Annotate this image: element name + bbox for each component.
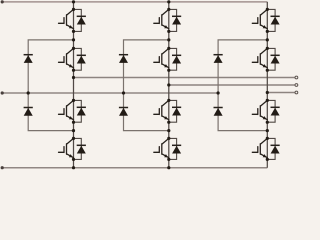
free-wheel diode D34 (271, 145, 280, 153)
wire free-wheel diode branch Q34 (267, 138, 275, 159)
node leg2 upper clamp junction (167, 38, 170, 41)
terminal neutral N (1, 91, 4, 94)
IGBT Q14 (59, 138, 74, 157)
IGBT Q33 (252, 100, 267, 119)
wire free-wheel diode branch Q32 (267, 48, 275, 70)
terminal phase C (295, 91, 298, 94)
node Q34 collector (266, 137, 269, 140)
wire free-wheel diode branch Q23 (169, 100, 177, 122)
wire free-wheel diode branch Q14 (74, 138, 82, 159)
node leg1 / DC+ rail (72, 0, 75, 3)
free-wheel diode D13 (77, 107, 86, 115)
IGBT Q12 (59, 48, 74, 67)
terminal phase A (295, 76, 298, 79)
node Q11 collector (72, 8, 75, 11)
wire neutral-point rail (2, 92, 218, 94)
wire free-wheel diode branch Q31 (267, 9, 275, 31)
clamp diode Dc11 (24, 55, 33, 63)
node Q32 collector (266, 47, 269, 50)
IGBT Q13 (59, 100, 74, 119)
node Q12 emitter (72, 69, 75, 72)
node Q23 emitter (167, 121, 170, 124)
wire clamp column leg A (28, 40, 73, 131)
IGBT Q21 (154, 9, 169, 28)
node Q22 collector (167, 47, 170, 50)
wire clamp column leg B (124, 40, 169, 131)
wire clamp column leg C (218, 40, 267, 131)
node Q34 emitter (266, 158, 269, 161)
node Q33 emitter (266, 121, 269, 124)
node phase C tap (266, 91, 269, 94)
free-wheel diode D22 (172, 55, 181, 63)
IGBT Q32 (252, 48, 267, 67)
node Q33 collector (266, 99, 269, 102)
IGBT Q34 (252, 138, 267, 157)
node Q12 collector (72, 47, 75, 50)
free-wheel diode D23 (172, 107, 181, 115)
wire negative DC rail (2, 167, 267, 169)
wire free-wheel diode branch Q11 (74, 9, 82, 31)
node Q13 collector (72, 99, 75, 102)
clamp diode Dc12 (24, 108, 33, 116)
node Q13 emitter (72, 121, 75, 124)
terminal DC+ (1, 0, 4, 3)
wire free-wheel diode branch Q12 (74, 48, 82, 70)
wire phase B output (169, 84, 295, 86)
node leg2 / DC+ rail (167, 0, 170, 3)
wire free-wheel diode branch Q24 (169, 138, 177, 159)
node leg2 lower clamp junction (167, 129, 170, 132)
terminal phase B (295, 84, 298, 87)
node leg1 lower clamp junction (72, 129, 75, 132)
wire phase leg B vertical (168, 2, 170, 168)
node Q24 emitter (167, 158, 170, 161)
IGBT Q31 (252, 9, 267, 28)
wire free-wheel diode branch Q22 (169, 48, 177, 70)
free-wheel diode D11 (77, 16, 86, 24)
node clamp column 3 / neutral rail (217, 91, 220, 94)
terminal DC- (1, 166, 4, 169)
node Q14 collector (72, 137, 75, 140)
free-wheel diode D32 (271, 55, 280, 63)
node Q24 collector (167, 137, 170, 140)
node Q31 emitter (266, 30, 269, 33)
clamp diode Dc21 (119, 55, 128, 63)
wire free-wheel diode branch Q21 (169, 9, 177, 31)
node Q22 emitter (167, 69, 170, 72)
clamp diode Dc31 (214, 55, 223, 63)
free-wheel diode D24 (172, 145, 181, 153)
node clamp column 1 / neutral rail (27, 91, 30, 94)
node leg1 upper clamp junction (72, 38, 75, 41)
node Q14 emitter (72, 158, 75, 161)
node clamp column 2 / neutral rail (122, 91, 125, 94)
IGBT Q11 (59, 9, 74, 28)
node leg3 lower clamp junction (266, 129, 269, 132)
node leg2 / DC- rail (167, 166, 170, 169)
node leg1 / DC- rail (72, 166, 75, 169)
node Q21 emitter (167, 30, 170, 33)
free-wheel diode D33 (271, 107, 280, 115)
node phase A tap (72, 76, 75, 79)
IGBT Q22 (154, 48, 169, 67)
node phase B tap (167, 83, 170, 86)
wire free-wheel diode branch Q13 (74, 100, 82, 122)
node Q21 collector (167, 8, 170, 11)
wire free-wheel diode branch Q33 (267, 100, 275, 122)
free-wheel diode D12 (77, 55, 86, 63)
free-wheel diode D31 (271, 16, 280, 24)
node leg3 upper clamp junction (266, 38, 269, 41)
node Q32 emitter (266, 69, 269, 72)
IGBT Q24 (154, 138, 169, 157)
wire phase C output (267, 92, 295, 94)
wire positive DC rail (2, 1, 267, 3)
wire phase leg C vertical (266, 2, 268, 168)
node Q31 collector (266, 8, 269, 11)
node Q23 collector (167, 99, 170, 102)
free-wheel diode D21 (172, 16, 181, 24)
node Q11 emitter (72, 30, 75, 33)
IGBT Q23 (154, 100, 169, 119)
wire phase leg A vertical (73, 2, 75, 168)
wire phase A output (74, 77, 295, 79)
clamp diode Dc32 (214, 108, 223, 116)
free-wheel diode D14 (77, 145, 86, 153)
clamp diode Dc22 (119, 108, 128, 116)
